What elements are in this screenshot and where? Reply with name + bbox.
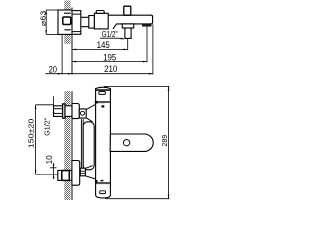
joint bottom left tick — [95, 180, 98, 182]
body front rect — [72, 11, 81, 35]
dim 289 line — [168, 86, 170, 198]
joint top left tick — [95, 101, 98, 104]
bottom union nut — [72, 161, 80, 186]
short line lower — [64, 29, 70, 31]
short line upper — [64, 12, 71, 14]
mixer block — [94, 13, 108, 29]
top union pipe — [65, 106, 72, 117]
joint top — [96, 101, 111, 103]
cap slot — [99, 91, 106, 94]
joint top speckles — [97, 102, 105, 104]
svg-text:210: 210 — [104, 64, 117, 74]
paddle circle — [123, 140, 129, 146]
wall face line — [71, 8, 73, 75]
holder clip — [143, 24, 152, 26]
svg-text:150±20: 150±20 — [27, 119, 36, 149]
ext line 20 left — [61, 34, 63, 74]
eccentric inner line 1 — [54, 108, 63, 110]
bottom union square — [62, 171, 70, 181]
top union nut — [72, 104, 79, 119]
dim d63 ext bottom — [46, 33, 58, 35]
bottom diag down — [85, 176, 95, 179]
bottom knob line 1 — [80, 170, 85, 172]
svg-text:20: 20 — [49, 65, 57, 75]
knob circle — [81, 111, 85, 115]
top union eccentric — [54, 106, 63, 117]
spout bar — [108, 15, 152, 29]
neck top — [81, 16, 89, 18]
wall hatch bottom view — [64, 91, 70, 200]
dim 150 ext top — [36, 104, 54, 106]
svg-text:⌀63: ⌀63 — [38, 11, 47, 27]
wall hatch upper segment — [64, 1, 70, 11]
cap bump — [96, 11, 104, 14]
wall hatch lower segment — [64, 34, 70, 43]
diag to bracket — [86, 118, 92, 122]
column main — [96, 87, 111, 198]
knob box — [79, 109, 86, 118]
neck bottom — [81, 26, 89, 28]
bottom union pipe lines — [58, 170, 72, 180]
bracket — [83, 122, 94, 170]
dim 145 line — [72, 48, 128, 50]
svg-text:G1/2": G1/2" — [43, 118, 52, 136]
joint bottom tick — [101, 180, 104, 181]
paddle handle — [110, 134, 153, 151]
outlet flange — [122, 24, 133, 28]
bottom knob box — [80, 168, 85, 176]
dim 210 ext right — [152, 24, 154, 74]
svg-text:195: 195 — [103, 52, 116, 62]
dim d63 line — [45, 10, 47, 34]
dim 150 line — [35, 105, 37, 175]
body inner line top — [72, 13, 81, 15]
eccentric inner line 2 — [54, 112, 63, 114]
diverter knob — [124, 6, 131, 15]
plate lines — [80, 119, 82, 170]
joint bottom speckles — [97, 184, 109, 186]
label underline — [100, 37, 118, 39]
dim 195 line — [72, 61, 147, 63]
dim 145 ext right — [127, 39, 129, 50]
cap band — [96, 89, 111, 91]
top union flange — [63, 104, 65, 118]
dim 289 ext top — [104, 85, 169, 87]
mid section — [89, 16, 95, 29]
svg-text:G1/2": G1/2" — [102, 29, 118, 39]
dim d63 ext top — [46, 9, 58, 11]
dim 289 ext bottom — [105, 198, 169, 200]
dim 210/20 line — [46, 73, 153, 75]
diag to column upper — [86, 104, 95, 109]
bottom slot — [100, 191, 106, 194]
body inner line bottom — [72, 31, 81, 33]
svg-text:289: 289 — [162, 135, 169, 147]
dim 10 line — [53, 163, 55, 179]
dim 195 ext right — [146, 26, 148, 62]
inlet pipe square — [63, 17, 71, 25]
leader G1/2 bottom view — [53, 96, 55, 116]
svg-text:145: 145 — [97, 40, 110, 50]
bottom knob line 2 — [80, 172, 85, 174]
bottom union centerline — [36, 173, 58, 175]
svg-text:10: 10 — [45, 155, 54, 164]
leader G1/2 — [118, 37, 124, 40]
dim 10 ref line — [50, 167, 57, 169]
bottom diag up — [85, 166, 92, 169]
escutcheon box behind wall — [58, 10, 72, 34]
joint bottom — [96, 182, 111, 184]
joint top tick — [102, 105, 105, 107]
outlet pipe — [125, 28, 131, 38]
wall face line bottom view — [71, 91, 73, 200]
